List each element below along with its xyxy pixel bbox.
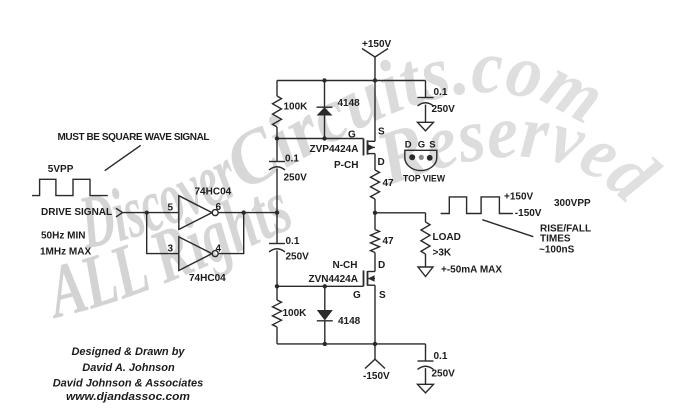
input square wave — [32, 179, 108, 195]
svg-text:5VPP: 5VPP — [48, 164, 74, 175]
capacitor C1 0.1 250V — [269, 162, 285, 171]
capacitor C2 0.1 250V — [269, 244, 285, 253]
svg-text:0.1: 0.1 — [286, 236, 300, 247]
-150V supply symbol — [365, 344, 385, 369]
svg-text:D: D — [378, 260, 385, 271]
inverter U1A 74HC04 — [179, 196, 218, 230]
svg-text:100K: 100K — [283, 308, 308, 319]
svg-text:5: 5 — [168, 203, 174, 214]
svg-text:250V: 250V — [284, 173, 308, 184]
svg-text:S: S — [379, 290, 386, 301]
diode D2 triangle — [317, 310, 333, 321]
junction: U1 outputs tied — [242, 210, 246, 214]
wire: +150V top rail — [277, 80, 426, 82]
wire: N-gate wire — [277, 285, 364, 287]
svg-text:G: G — [418, 140, 425, 151]
svg-text:250V: 250V — [432, 369, 456, 380]
diode D1 triangle — [317, 107, 333, 115]
svg-text:LOAD: LOAD — [433, 232, 461, 243]
svg-text:P-CH: P-CH — [334, 160, 358, 171]
Q2 arrow — [368, 275, 375, 281]
wire: drive node vertical — [276, 169, 278, 244]
pointer line to square wave note — [105, 145, 141, 170]
junction: output node — [373, 211, 377, 215]
junction: D1 at P-gate wire — [322, 136, 326, 140]
svg-text:MUST BE SQUARE WAVE SIGNAL: MUST BE SQUARE WAVE SIGNAL — [58, 132, 210, 143]
junction: P-gate node at left column — [275, 136, 279, 140]
diode D1 4148 leads — [317, 81, 333, 139]
svg-text:+-50mA MAX: +-50mA MAX — [441, 265, 502, 276]
svg-text:>3K: >3K — [433, 248, 452, 259]
resistor R2 47 — [371, 170, 380, 199]
wire: main vertical to output node — [374, 199, 376, 272]
svg-text:6: 6 — [216, 202, 222, 213]
resistor R4 100K — [273, 300, 282, 327]
wire: U1B output — [218, 213, 243, 254]
ground symbol bottom right — [418, 384, 434, 393]
svg-text:47: 47 — [383, 236, 395, 247]
svg-text:4148: 4148 — [338, 316, 361, 327]
svg-text:-150V: -150V — [363, 371, 390, 382]
wire: N source to rail — [374, 285, 376, 344]
wire: drive signal to inverters — [123, 213, 179, 254]
svg-text:50Hz MIN: 50Hz MIN — [41, 231, 85, 242]
Q1 arrow stub — [368, 147, 376, 148]
label D G S package — [405, 140, 436, 151]
svg-text:S: S — [378, 127, 385, 138]
watermark — [37, 25, 674, 335]
svg-text:~100nS: ~100nS — [539, 245, 575, 256]
junction: D2 at -150V rail — [323, 342, 327, 346]
svg-text:D: D — [378, 157, 385, 168]
transistor Q1 ZVP4424A gate/channel — [364, 139, 376, 156]
junction: main vertical at +150V rail — [373, 78, 377, 82]
svg-text:0.1: 0.1 — [285, 154, 299, 165]
svg-text:S: S — [429, 140, 435, 151]
svg-text:74HC04: 74HC04 — [195, 187, 232, 198]
diode D2 4148 leads — [317, 286, 333, 344]
svg-text:ZVN4424A: ZVN4424A — [309, 274, 358, 285]
svg-text:David A. Johnson: David A. Johnson — [82, 362, 175, 374]
ground symbol load — [418, 267, 433, 277]
svg-text:Designed & Drawn by: Designed & Drawn by — [71, 346, 185, 358]
svg-text:+150V: +150V — [504, 192, 534, 203]
output square wave — [441, 197, 513, 214]
svg-text:DRIVE SIGNAL: DRIVE SIGNAL — [41, 207, 112, 218]
svg-text:47: 47 — [383, 178, 395, 189]
ground symbol top right — [418, 122, 434, 131]
Q1 arrow — [368, 144, 375, 150]
svg-text:0.1: 0.1 — [434, 87, 448, 98]
package pin D — [409, 154, 415, 160]
svg-text:G: G — [348, 130, 356, 141]
svg-text:D: D — [405, 140, 412, 151]
junction: drive node at left column — [275, 210, 279, 214]
svg-text:www.djandassoc.com: www.djandassoc.com — [66, 391, 190, 403]
wire: P-gate wire — [277, 138, 364, 140]
svg-text:TIMES: TIMES — [540, 234, 571, 245]
svg-text:4: 4 — [216, 244, 222, 255]
transistor Q2 ZVN4424A gate/channel — [364, 271, 376, 287]
svg-text:250V: 250V — [286, 252, 310, 263]
svg-text:100K: 100K — [284, 102, 309, 113]
svg-text:ZVP4424A: ZVP4424A — [310, 144, 359, 155]
inverter U1B 74HC04 — [179, 237, 218, 271]
junction: drive signal split — [145, 211, 149, 215]
svg-text:David Johnson & Associates: David Johnson & Associates — [53, 378, 204, 390]
svg-text:300VPP: 300VPP — [554, 198, 591, 209]
resistor R3 47 — [371, 230, 380, 253]
capacitor C4 0.1 250V bypass bottom — [418, 344, 434, 384]
svg-text:N-CH: N-CH — [333, 260, 358, 271]
junction: D1 at +150V rail — [322, 78, 326, 82]
junction: N-gate node at left column — [275, 284, 279, 288]
wire: output node to load — [375, 213, 426, 267]
svg-text:3: 3 — [168, 244, 174, 255]
svg-text:TOP VIEW: TOP VIEW — [403, 174, 445, 185]
wire: left column upper — [276, 81, 278, 162]
package pin S — [427, 155, 433, 161]
drive signal arrow — [116, 208, 123, 217]
svg-text:-150V: -150V — [515, 208, 542, 219]
wire: main vertical upper — [374, 81, 376, 171]
wire: -150V bottom rail — [277, 343, 426, 345]
Q2 arrow stub — [368, 278, 376, 279]
resistor RL LOAD — [421, 222, 430, 254]
junction: main vertical at -150V rail — [373, 342, 377, 346]
svg-text:+150V: +150V — [362, 39, 392, 50]
package outline TOP VIEW — [405, 150, 437, 170]
svg-text:1MHz MAX: 1MHz MAX — [40, 247, 91, 258]
package pin G — [419, 155, 424, 160]
pointer line to rise/fall note — [482, 220, 533, 237]
svg-text:G: G — [353, 290, 361, 301]
svg-text:250V: 250V — [432, 104, 456, 115]
resistor R1 100K — [273, 96, 282, 127]
+150V supply symbol — [362, 49, 388, 81]
capacitor C3 0.1 250V bypass top — [418, 81, 434, 123]
svg-text:74HC04: 74HC04 — [189, 273, 226, 284]
wire: U1A output — [218, 212, 277, 214]
svg-text:0.1: 0.1 — [434, 351, 448, 362]
svg-text:4148: 4148 — [338, 98, 361, 109]
junction: D2 at N-gate wire — [323, 284, 327, 288]
wire: left column lower — [276, 251, 278, 344]
